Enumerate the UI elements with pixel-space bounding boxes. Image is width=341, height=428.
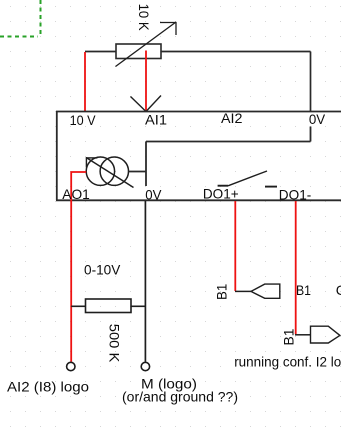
svg-text:B1: B1 xyxy=(214,283,230,300)
svg-text:AI1: AI1 xyxy=(145,112,167,128)
svg-text:0-10V: 0-10V xyxy=(84,262,121,278)
svg-text:B1: B1 xyxy=(281,328,297,345)
svg-text:0V: 0V xyxy=(145,186,162,202)
svg-text:10 K: 10 K xyxy=(136,4,152,32)
svg-text:C: C xyxy=(336,282,341,298)
svg-text:DO1-: DO1- xyxy=(279,186,312,202)
svg-text:running conf. I2 logo: running conf. I2 logo xyxy=(234,354,341,370)
svg-text:DO1+: DO1+ xyxy=(203,185,239,201)
svg-text:10 V: 10 V xyxy=(70,112,97,128)
svg-text:(or/and ground ??): (or/and ground ??) xyxy=(122,389,238,405)
svg-text:B1: B1 xyxy=(296,282,311,298)
svg-text:AI2 (I8) logo: AI2 (I8) logo xyxy=(7,379,89,395)
svg-text:AO1: AO1 xyxy=(62,186,90,202)
svg-text:0V: 0V xyxy=(309,111,326,127)
svg-text:AI2: AI2 xyxy=(221,110,243,126)
svg-text:500 K: 500 K xyxy=(107,324,123,363)
